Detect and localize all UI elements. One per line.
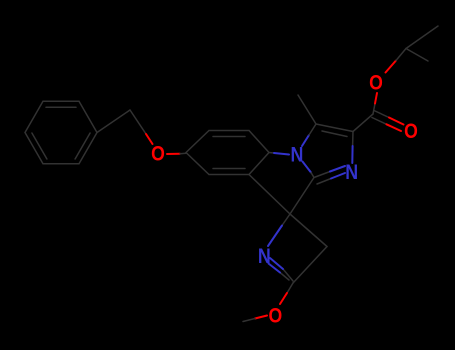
svg-text:N: N <box>258 245 271 269</box>
svg-text:O: O <box>404 120 418 144</box>
svg-text:O: O <box>369 71 383 95</box>
svg-text:N: N <box>291 143 304 167</box>
svg-text:O: O <box>151 142 165 166</box>
svg-text:N: N <box>345 161 358 185</box>
svg-text:O: O <box>269 304 283 328</box>
